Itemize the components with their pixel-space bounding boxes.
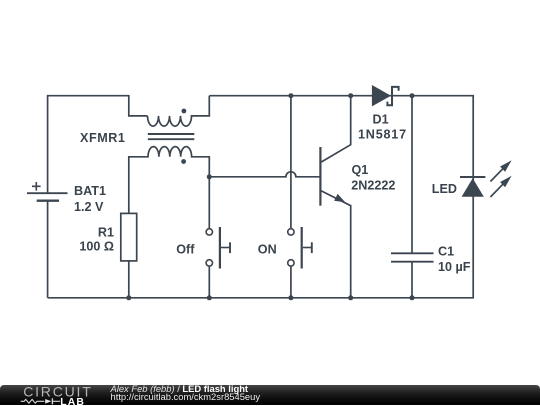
svg-text:LED: LED xyxy=(432,182,457,196)
svg-text:R1: R1 xyxy=(98,225,114,239)
svg-text:Off: Off xyxy=(176,243,195,257)
svg-text:XFMR1: XFMR1 xyxy=(80,131,125,145)
svg-text:1.2 V: 1.2 V xyxy=(74,200,104,214)
svg-text:2N2222: 2N2222 xyxy=(351,178,395,192)
svg-text:100 Ω: 100 Ω xyxy=(79,240,114,254)
svg-text:BAT1: BAT1 xyxy=(74,184,106,198)
svg-text:ON: ON xyxy=(258,243,277,257)
svg-text:LAB: LAB xyxy=(60,396,85,405)
svg-text:10 µF: 10 µF xyxy=(438,260,471,274)
svg-text:D1: D1 xyxy=(373,112,389,126)
svg-text:C1: C1 xyxy=(438,244,454,258)
svg-text:1N5817: 1N5817 xyxy=(358,127,407,141)
svg-text:Q1: Q1 xyxy=(352,163,369,177)
